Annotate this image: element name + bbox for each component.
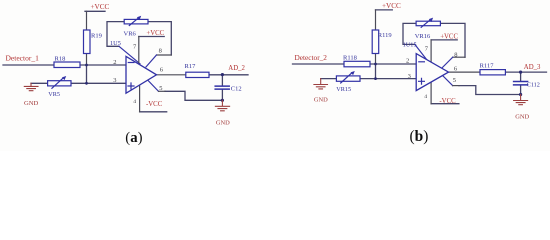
svg-text:1U15: 1U15	[403, 42, 417, 49]
svg-text:-VCC: -VCC	[146, 101, 163, 108]
svg-text:AD_3: AD_3	[524, 64, 541, 71]
svg-text:8: 8	[454, 52, 457, 59]
svg-text:R117: R117	[480, 63, 495, 70]
svg-text:GND: GND	[314, 97, 328, 104]
svg-text:3: 3	[408, 73, 411, 80]
svg-text:4: 4	[133, 99, 136, 105]
svg-text:(b): (b)	[410, 128, 429, 145]
svg-text:R17: R17	[185, 63, 197, 70]
svg-text:4: 4	[424, 94, 427, 100]
svg-text:2: 2	[113, 59, 116, 66]
svg-text:+VCC: +VCC	[440, 34, 458, 41]
svg-text:+VCC: +VCC	[382, 2, 401, 10]
svg-text:+VCC: +VCC	[91, 3, 110, 11]
svg-text:8: 8	[159, 47, 162, 54]
svg-text:VR15: VR15	[336, 86, 351, 93]
svg-text:AD_2: AD_2	[228, 65, 245, 72]
svg-text:5: 5	[453, 77, 456, 84]
svg-text:C12: C12	[231, 85, 242, 92]
svg-text:+VCC: +VCC	[146, 30, 164, 37]
svg-text:Detector_1: Detector_1	[6, 53, 40, 62]
svg-text:R118: R118	[343, 55, 357, 62]
svg-text:GND: GND	[515, 114, 529, 121]
svg-text:R119: R119	[378, 32, 392, 39]
svg-text:C112: C112	[527, 82, 540, 89]
svg-text:VR16: VR16	[415, 33, 431, 40]
svg-text:3: 3	[113, 77, 116, 84]
svg-text:1U5: 1U5	[110, 40, 121, 47]
svg-text:Detector_2: Detector_2	[295, 53, 328, 62]
svg-text:R18: R18	[55, 55, 66, 62]
svg-text:2: 2	[406, 57, 409, 64]
svg-text:VR6: VR6	[124, 31, 137, 38]
svg-text:-VCC: -VCC	[439, 98, 456, 105]
svg-text:R19: R19	[91, 33, 102, 40]
svg-text:(a): (a)	[125, 130, 142, 146]
svg-text:GND: GND	[216, 120, 230, 127]
svg-text:5: 5	[159, 85, 162, 92]
svg-text:GND: GND	[24, 100, 39, 107]
svg-text:VR5: VR5	[48, 91, 60, 98]
